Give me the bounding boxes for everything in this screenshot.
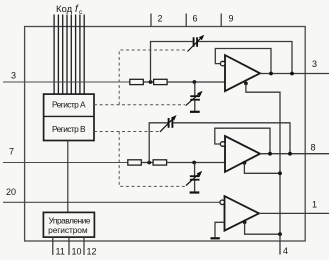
svg-text:11: 11 bbox=[56, 247, 65, 257]
svg-text:6: 6 bbox=[193, 14, 198, 24]
svg-text:10: 10 bbox=[72, 247, 82, 257]
svg-text:Код: Код bbox=[56, 4, 73, 15]
svg-text:Регистр В: Регистр В bbox=[52, 124, 86, 134]
svg-text:3: 3 bbox=[11, 71, 16, 81]
svg-text:1: 1 bbox=[312, 200, 317, 210]
svg-text:8: 8 bbox=[311, 143, 316, 153]
svg-text:2: 2 bbox=[158, 14, 163, 24]
svg-text:Регистр А: Регистр А bbox=[52, 99, 86, 109]
svg-text:12: 12 bbox=[87, 247, 97, 257]
svg-text:3: 3 bbox=[312, 59, 317, 69]
svg-text:регистром: регистром bbox=[48, 225, 88, 235]
svg-text:20: 20 bbox=[6, 187, 16, 197]
svg-text:9: 9 bbox=[229, 14, 234, 24]
svg-text:7: 7 bbox=[9, 147, 14, 157]
svg-text:4: 4 bbox=[283, 246, 288, 256]
svg-text:Управление: Управление bbox=[49, 215, 91, 225]
